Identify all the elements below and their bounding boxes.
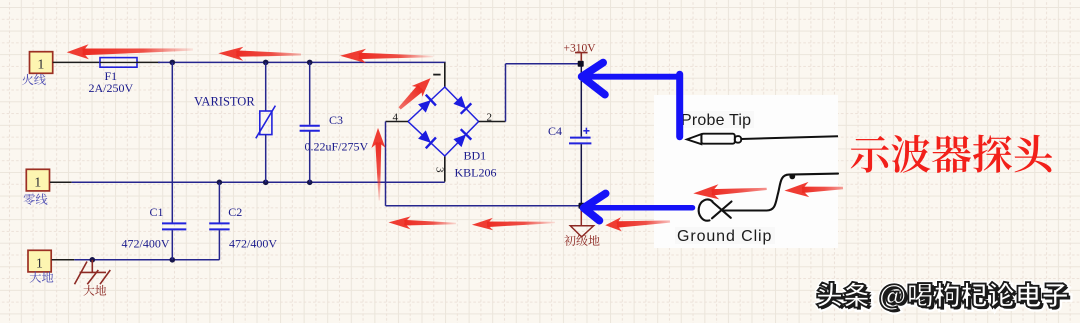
- red arrow D diagonal at bridge: [399, 78, 431, 109]
- svg-text:472/400V: 472/400V: [122, 237, 170, 251]
- wire live: terminal1 to fuse: [53, 61, 100, 63]
- svg-text:4: 4: [392, 111, 398, 123]
- red arrow A top-left: [67, 44, 193, 59]
- connector P2 (neutral) terminal: [26, 169, 49, 191]
- diode D-a (left corner to top corner): [418, 95, 436, 113]
- wire live: fuse to C1 node: [137, 61, 160, 63]
- junction neutral/varistor: [263, 180, 269, 186]
- svg-text:BD1: BD1: [464, 149, 487, 163]
- bridge rectifier BD1 diamond: [408, 87, 479, 156]
- svg-text:0.22uF/275V: 0.22uF/275V: [305, 140, 369, 154]
- red arrow B top: [218, 47, 301, 61]
- wire neutral run: [72, 181, 445, 183]
- capacitor C3: [300, 126, 320, 131]
- svg-text:+310V: +310V: [564, 43, 597, 55]
- junction neutral/C2: [217, 180, 223, 186]
- svg-text:2A/250V: 2A/250V: [88, 81, 133, 95]
- junction live/varistor: [263, 60, 269, 66]
- red arrow F2 bottom: [472, 218, 555, 230]
- wire C1 top lead: [171, 62, 173, 222]
- junction earth symbol: [90, 257, 96, 263]
- wire earth: terminal3 stub: [52, 259, 75, 261]
- earth label red: [83, 285, 106, 296]
- ground clip drawing: [699, 174, 838, 221]
- svg-text:C3: C3: [329, 113, 343, 127]
- wire C4 top lead: [580, 64, 582, 137]
- wire varistor top lead: [265, 62, 267, 111]
- watermark 头条 @喝枸杞论电子: [817, 282, 1068, 311]
- junction primary ground node: [579, 203, 585, 209]
- svg-text:C4: C4: [548, 124, 562, 138]
- svg-text:472/400V: 472/400V: [229, 237, 277, 251]
- svg-text:3: 3: [434, 167, 446, 173]
- wire C3 bottom lead: [309, 132, 311, 183]
- primary ground triangle: [570, 209, 593, 237]
- wire pin4 to primary ground node: [386, 205, 582, 207]
- diode D-d (bottom corner to right corner): [453, 129, 471, 147]
- svg-text:1: 1: [34, 175, 41, 190]
- wire C2 bottom lead: [218, 230, 220, 260]
- red arrow F bottom: [389, 216, 457, 229]
- svg-text:VARISTOR: VARISTOR: [194, 95, 255, 109]
- svg-text:1: 1: [36, 256, 43, 271]
- capacitor C2: [209, 223, 229, 229]
- wire pin stub bridge 3: [444, 156, 446, 182]
- wire pin stub bridge minus: [444, 62, 446, 87]
- pin 2 stub: [479, 121, 506, 123]
- caption 示波器探头: [851, 135, 1052, 173]
- wire C2 top lead: [218, 182, 220, 222]
- wire varistor bottom lead: [265, 135, 267, 183]
- svg-text:1: 1: [37, 58, 44, 73]
- earth ground symbol: [75, 260, 111, 284]
- red arrow H at ground clip: [693, 184, 767, 199]
- svg-text:Probe Tip: Probe Tip: [681, 112, 751, 129]
- junction neutral/C3: [307, 180, 313, 186]
- probe photo white panel: [654, 95, 838, 248]
- svg-text:C2: C2: [228, 205, 242, 219]
- wire pin4 vertical: [385, 122, 387, 206]
- diode D-c (left corner to bottom corner): [418, 130, 436, 148]
- svg-text:2: 2: [487, 111, 493, 123]
- blue arrow ground-clip to primary ground: [584, 194, 693, 221]
- connector P1 (live) terminal: [30, 52, 53, 74]
- blue arrow probe-tip to +310V: [582, 63, 680, 137]
- pin 4 stub: [386, 121, 409, 123]
- red arrow C top: [340, 49, 433, 63]
- junction +310V node: [578, 61, 584, 67]
- fuse F1: [100, 58, 137, 68]
- probe tip drawing: [687, 134, 838, 145]
- net label 初级地 (primary ground): [564, 235, 599, 246]
- wire earth run: [74, 259, 219, 261]
- red arrow G at primary ground: [605, 217, 670, 231]
- varistor RV: [256, 106, 276, 139]
- svg-text:KBL206: KBL206: [455, 166, 497, 180]
- capacitor C4 polarized: [569, 138, 591, 144]
- red arrow E vertical up: [371, 128, 385, 201]
- wire C3 top lead: [309, 62, 311, 124]
- wire C1 bottom lead: [171, 230, 173, 260]
- svg-text:Ground Clip: Ground Clip: [677, 228, 772, 245]
- wire neutral: terminal2 stub: [50, 181, 72, 183]
- junction earth/C1: [170, 257, 176, 263]
- power +310V bar: [575, 53, 588, 61]
- svg-text:C1: C1: [150, 205, 164, 219]
- connector P3 (earth) terminal: [28, 250, 51, 272]
- junction live/C1: [170, 60, 176, 66]
- wire live: to bridge bend: [158, 61, 446, 63]
- wire +310V rail: [506, 63, 582, 65]
- wire pin2 vertical: [505, 64, 507, 122]
- pin name minus: [433, 74, 440, 76]
- junction live/C3: [307, 60, 313, 66]
- diode D-b (top corner to right corner): [453, 96, 471, 114]
- red arrow I right of clip: [784, 182, 843, 197]
- capacitor C1: [162, 223, 186, 229]
- wire C4 bottom lead: [580, 144, 582, 206]
